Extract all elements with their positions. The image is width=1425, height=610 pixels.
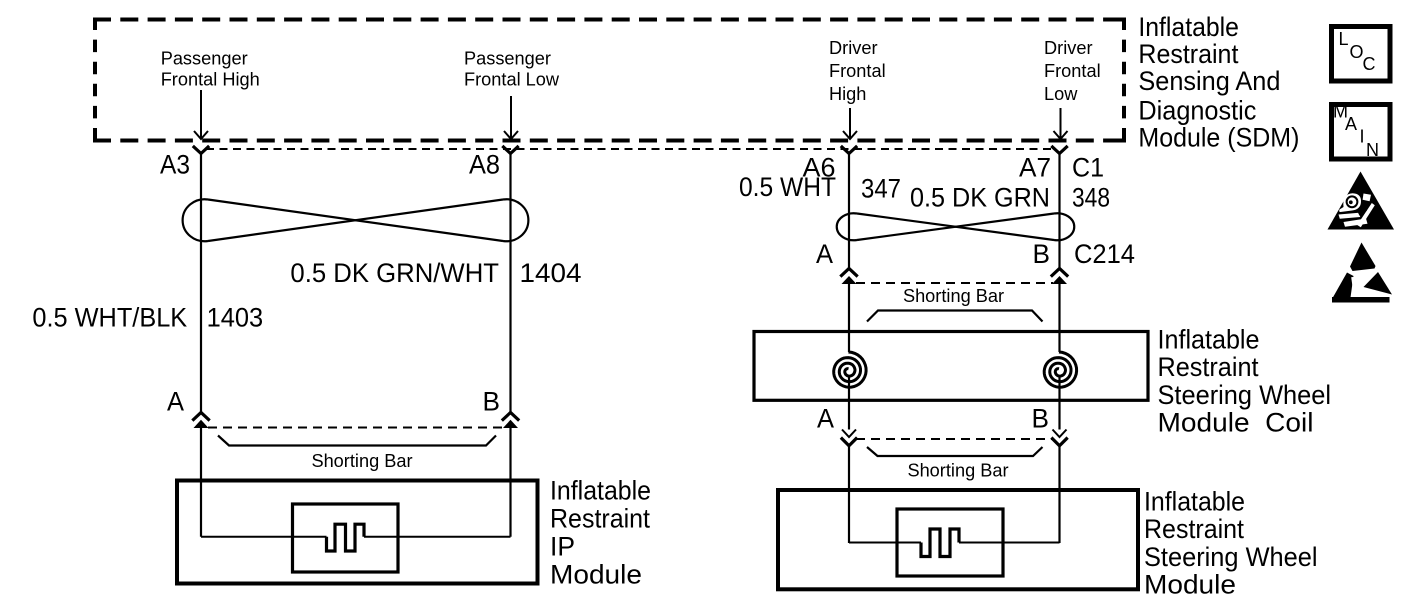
svg-text:Steering Wheel: Steering Wheel bbox=[1144, 542, 1318, 572]
svg-text:C: C bbox=[1363, 54, 1376, 74]
svg-text:Passenger: Passenger bbox=[161, 49, 248, 69]
svg-text:B: B bbox=[1033, 239, 1051, 269]
svg-text:I: I bbox=[1360, 127, 1365, 147]
svg-text:Shorting Bar: Shorting Bar bbox=[907, 461, 1008, 481]
svg-text:Shorting Bar: Shorting Bar bbox=[903, 286, 1004, 306]
svg-text:A: A bbox=[817, 403, 834, 433]
svg-text:A: A bbox=[1345, 114, 1357, 134]
svg-text:L: L bbox=[1339, 29, 1349, 49]
svg-text:Restraint: Restraint bbox=[1138, 39, 1238, 69]
svg-text:Passenger: Passenger bbox=[464, 49, 551, 69]
svg-text:Diagnostic: Diagnostic bbox=[1138, 96, 1256, 126]
svg-text:O: O bbox=[1350, 42, 1364, 62]
svg-text:348: 348 bbox=[1072, 183, 1110, 213]
svg-text:B: B bbox=[483, 387, 501, 417]
svg-text:347: 347 bbox=[861, 174, 901, 204]
svg-text:A3: A3 bbox=[160, 150, 190, 180]
svg-text:High: High bbox=[829, 84, 866, 104]
svg-text:Module: Module bbox=[1144, 570, 1236, 600]
svg-text:0.5 WHT: 0.5 WHT bbox=[739, 172, 836, 202]
svg-text:1404: 1404 bbox=[520, 258, 582, 288]
svg-text:C1: C1 bbox=[1072, 153, 1104, 183]
svg-text:Sensing And: Sensing And bbox=[1138, 66, 1280, 96]
svg-text:Frontal High: Frontal High bbox=[161, 69, 260, 89]
svg-text:0.5 DK GRN/WHT: 0.5 DK GRN/WHT bbox=[290, 258, 499, 288]
svg-text:Inflatable: Inflatable bbox=[1138, 12, 1239, 42]
svg-text:0.5 WHT/BLK: 0.5 WHT/BLK bbox=[32, 303, 187, 333]
svg-text:Frontal: Frontal bbox=[829, 61, 886, 81]
svg-text:Shorting Bar: Shorting Bar bbox=[311, 451, 412, 471]
svg-text:C214: C214 bbox=[1074, 239, 1135, 269]
svg-text:Frontal Low: Frontal Low bbox=[464, 69, 560, 89]
svg-text:N: N bbox=[1366, 140, 1379, 160]
svg-text:Inflatable: Inflatable bbox=[1144, 487, 1245, 517]
svg-text:Driver: Driver bbox=[829, 38, 878, 58]
svg-text:Driver: Driver bbox=[1044, 38, 1093, 58]
svg-text:Restraint: Restraint bbox=[1158, 352, 1259, 382]
svg-text:IP: IP bbox=[550, 532, 575, 562]
svg-text:Frontal: Frontal bbox=[1044, 61, 1101, 81]
svg-text:Module Coil: Module Coil bbox=[1158, 408, 1314, 438]
svg-text:A8: A8 bbox=[469, 150, 500, 180]
svg-text:Restraint: Restraint bbox=[550, 504, 650, 534]
svg-text:Inflatable: Inflatable bbox=[1158, 325, 1260, 355]
svg-text:Low: Low bbox=[1044, 84, 1078, 104]
svg-text:Module (SDM): Module (SDM) bbox=[1138, 123, 1299, 153]
svg-text:Steering Wheel: Steering Wheel bbox=[1158, 380, 1332, 410]
svg-text:B: B bbox=[1032, 403, 1050, 433]
svg-text:A: A bbox=[816, 239, 833, 269]
svg-text:Module: Module bbox=[550, 560, 642, 590]
svg-text:A7: A7 bbox=[1019, 153, 1051, 183]
svg-text:Restraint: Restraint bbox=[1144, 514, 1244, 544]
svg-text:1403: 1403 bbox=[207, 303, 264, 333]
svg-text:Inflatable: Inflatable bbox=[550, 476, 651, 506]
svg-text:A: A bbox=[167, 387, 184, 417]
svg-text:0.5 DK GRN: 0.5 DK GRN bbox=[910, 183, 1050, 213]
